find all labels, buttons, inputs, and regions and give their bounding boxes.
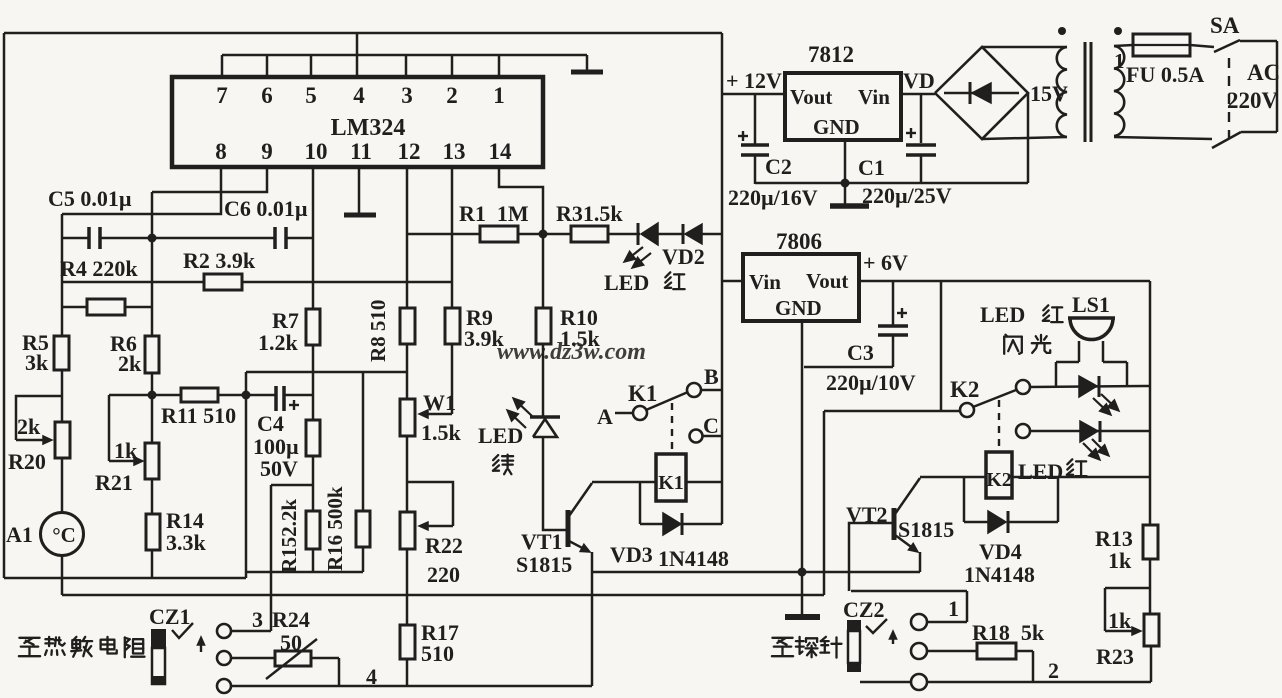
- wire R15 bottom: [312, 549, 315, 572]
- wire R15a-R15: [312, 456, 315, 511]
- transistor VT2 emitter: [895, 535, 918, 552]
- label C3 value: [826, 370, 916, 395]
- svg-text:R16 500k: R16 500k: [323, 486, 347, 571]
- svg-text:2: 2: [446, 83, 458, 108]
- switch blade K1: [646, 392, 688, 410]
- wire rail-7806: [722, 280, 743, 283]
- svg-text:9: 9: [261, 139, 273, 164]
- svg-text:7812: 7812: [808, 42, 854, 67]
- svg-text:R4 220k: R4 220k: [60, 256, 138, 281]
- wire +6V right drop: [1149, 281, 1152, 525]
- contact K2 upper: [1016, 380, 1030, 394]
- label A: [597, 404, 613, 429]
- wire primary top: [1114, 45, 1133, 46]
- resistor R14: [146, 514, 160, 550]
- resistor R5: [54, 336, 69, 370]
- svg-text:C4: C4: [257, 411, 284, 436]
- led red VD1: [638, 223, 658, 245]
- mark CZ2 check: [866, 619, 887, 633]
- svg-text:R8 510: R8 510: [366, 300, 390, 362]
- led LED1: [1079, 376, 1099, 397]
- wire 7806 GND down: [801, 321, 804, 616]
- arrow W1 wiper: [419, 410, 452, 418]
- wire B-rail: [701, 389, 722, 392]
- resistor R8: [400, 308, 415, 344]
- wire 7812 GND pin: [844, 140, 847, 183]
- capacitor C6: [152, 227, 313, 249]
- capacitor C1: [906, 94, 936, 183]
- arrow CZ1 plug: [197, 637, 204, 652]
- relay coil K1: [656, 454, 686, 501]
- wire R16 bottom: [362, 547, 365, 572]
- label C5: [48, 186, 132, 211]
- svg-text:220V: 220V: [1227, 88, 1279, 113]
- wire pin9 hook: [152, 167, 267, 192]
- svg-text:3.3k: 3.3k: [166, 530, 207, 555]
- label +6V: [863, 250, 908, 275]
- wire +6V: [859, 280, 1150, 283]
- pin numbers top row: [216, 83, 505, 108]
- svg-text:3: 3: [401, 83, 413, 108]
- transistor VT1 base bar: [566, 510, 571, 547]
- label R6: [110, 331, 142, 376]
- ground main: [785, 614, 820, 620]
- label R17: [421, 620, 459, 666]
- label R21: [95, 470, 133, 495]
- svg-text:K2: K2: [986, 469, 1012, 491]
- diode VD4: [964, 511, 1058, 533]
- wire 372 row: [246, 371, 407, 374]
- svg-text:Vout: Vout: [790, 85, 832, 109]
- label R10: [560, 305, 601, 351]
- svg-text:K2: K2: [950, 377, 979, 402]
- label R20: [8, 449, 46, 474]
- wire R22 bracket: [407, 482, 453, 526]
- potentiometer R22: [400, 512, 415, 549]
- svg-text:510: 510: [421, 641, 454, 666]
- wire vertical x62: [61, 214, 64, 336]
- capacitor C2: [741, 94, 769, 184]
- wire W1-R22: [406, 436, 409, 512]
- label CZ1: [149, 604, 191, 629]
- svg-text:+ 6V: + 6V: [863, 250, 908, 275]
- svg-text:LS1: LS1: [1072, 292, 1110, 317]
- label +12V: [726, 68, 782, 93]
- wire pin13: [451, 167, 454, 308]
- svg-text:220µ/25V: 220µ/25V: [862, 183, 952, 208]
- svg-text:50V: 50V: [260, 456, 298, 481]
- wire K2-rail: [1012, 476, 1150, 479]
- label LED red 2: [1018, 459, 1087, 484]
- wire line1: [4, 577, 246, 580]
- svg-text:1N4148: 1N4148: [964, 562, 1035, 587]
- wire line2: [62, 594, 824, 597]
- contact CZ2-3: [911, 674, 927, 690]
- resistor R2: [204, 274, 242, 290]
- dashed link SA: [1228, 58, 1230, 138]
- label R7: [258, 308, 299, 355]
- wire left border: [3, 33, 6, 578]
- svg-text:7806: 7806: [776, 229, 822, 254]
- wire VT1 emitter down: [591, 552, 594, 686]
- wire bridge bottom: [982, 137, 1067, 139]
- node gnd junction: [798, 568, 807, 577]
- resistor R7: [306, 309, 320, 345]
- label VD3: [610, 542, 729, 571]
- wire x824 vertical: [823, 411, 826, 595]
- node phasing dot left: [1058, 27, 1066, 35]
- resistor R10: [536, 308, 551, 344]
- svg-text:8: 8: [215, 139, 227, 164]
- svg-text:R18 5k: R18 5k: [972, 620, 1045, 645]
- label R1: [459, 201, 529, 226]
- wire R10-LED: [542, 344, 545, 416]
- potentiometer R20: [55, 422, 70, 458]
- arrow CZ2 plug: [889, 631, 896, 644]
- label SA: [1210, 13, 1240, 38]
- svg-text:R31.5k: R31.5k: [556, 201, 623, 226]
- arrows LED2: [1083, 439, 1109, 460]
- contact CZ1-3: [217, 679, 231, 693]
- contact CZ1-2: [217, 651, 231, 665]
- regulator 7806: [743, 254, 859, 321]
- arrow R23 wiper: [1105, 627, 1141, 635]
- label VT1: [516, 529, 572, 577]
- label R23 value: [1108, 608, 1132, 633]
- wire VT2 base hook: [849, 523, 892, 591]
- wire R20-A1: [61, 458, 64, 513]
- svg-text:12: 12: [398, 139, 421, 164]
- wire pin10 column: [312, 167, 315, 309]
- wire R5-R20: [61, 370, 64, 422]
- wire R1 row left: [407, 233, 480, 236]
- svg-text:Vin: Vin: [858, 85, 890, 109]
- connector CZ1 jack: [151, 629, 166, 685]
- svg-text:4: 4: [366, 664, 377, 689]
- svg-text:CZ1: CZ1: [149, 604, 191, 629]
- svg-text:C6 0.01µ: C6 0.01µ: [224, 196, 308, 221]
- svg-text:www.dz3w.com: www.dz3w.com: [497, 339, 646, 365]
- svg-text:C: C: [703, 413, 719, 438]
- label to probe: [772, 637, 842, 658]
- wire SA-ACtop: [1240, 40, 1277, 43]
- potentiometer W1: [400, 399, 415, 436]
- wire A stub: [615, 412, 633, 415]
- contact B: [687, 383, 701, 397]
- meter A1: [41, 513, 84, 556]
- label C2 plus: [738, 131, 748, 141]
- svg-text:A: A: [597, 404, 613, 429]
- svg-text:C5 0.01µ: C5 0.01µ: [48, 186, 132, 211]
- ground pin11: [344, 167, 376, 215]
- wire R6 bottom: [151, 373, 154, 395]
- label K2 contacts: [950, 377, 979, 402]
- resistor R17: [400, 625, 415, 659]
- mark CZ1 check: [172, 623, 193, 638]
- svg-text:LED: LED: [478, 423, 523, 448]
- potentiometer R23: [1144, 614, 1159, 646]
- wire VD4 right drop: [1057, 477, 1060, 522]
- svg-text:C2: C2: [765, 154, 792, 179]
- wire R2 row: [62, 281, 452, 284]
- label C4: [253, 411, 299, 481]
- svg-text:6: 6: [261, 83, 273, 108]
- wire led2 row: [1030, 430, 1150, 433]
- led LED2: [1080, 421, 1100, 442]
- label LED green: [478, 423, 523, 474]
- contact CZ2-1: [911, 614, 927, 630]
- wire Vin-bridge: [901, 93, 935, 96]
- node C5-C6 junction: [148, 234, 157, 243]
- svg-text:S1815: S1815: [898, 517, 954, 542]
- wire A1 bottom: [61, 555, 64, 595]
- label flash: [1004, 335, 1050, 354]
- svg-text:+ 12V: + 12V: [726, 68, 782, 93]
- label 4: [366, 664, 377, 689]
- svg-text:1k: 1k: [1108, 548, 1132, 573]
- label C3 plus: [897, 308, 907, 318]
- label C6: [224, 196, 308, 221]
- label R15: [277, 499, 301, 573]
- svg-text:Vin: Vin: [749, 270, 781, 294]
- bridge rectifier: [935, 47, 1028, 139]
- wire pin8 hook: [62, 167, 221, 214]
- bridge diode: [944, 82, 1019, 104]
- wire R16 top: [362, 372, 365, 511]
- label R4: [60, 256, 138, 281]
- svg-text:R2 3.9k: R2 3.9k: [183, 248, 256, 273]
- svg-text:3k: 3k: [25, 350, 49, 375]
- svg-text:B: B: [704, 364, 719, 389]
- capacitor C5: [62, 227, 152, 249]
- arrows red LED: [624, 247, 651, 268]
- resistor R15: [306, 511, 320, 549]
- switch blade K2: [973, 390, 1016, 407]
- label C4 plus: [289, 400, 299, 410]
- wire R23 bracket: [1105, 588, 1150, 631]
- svg-text:1k: 1k: [114, 438, 138, 463]
- label C2: [765, 154, 792, 179]
- wire R11 row: [109, 394, 246, 397]
- wire CZ1-1 to R15: [271, 484, 313, 487]
- node R11-C4 junction: [242, 391, 251, 400]
- wire led1 row: [1030, 386, 1150, 387]
- wire junction-R21: [151, 395, 154, 443]
- label LS1: [1072, 292, 1110, 317]
- wire R21-R14: [151, 479, 154, 514]
- label 7806: [776, 229, 822, 254]
- wire ground row: [592, 571, 920, 574]
- wire +6V drop: [940, 281, 943, 411]
- wire R18 right: [1016, 651, 1033, 682]
- label VT2: [846, 502, 954, 542]
- svg-text:R11 510: R11 510: [161, 403, 236, 428]
- svg-text:2k: 2k: [118, 351, 142, 376]
- svg-text:CZ2: CZ2: [843, 597, 885, 622]
- transformer T1 primary coil: [1114, 46, 1124, 136]
- arrows green LED: [507, 398, 532, 428]
- svg-text:220µ/16V: 220µ/16V: [728, 185, 818, 210]
- wire top pin stubs: [222, 55, 499, 77]
- label R16: [323, 486, 347, 571]
- fuse FU: [1133, 34, 1190, 56]
- wire top border: [4, 32, 722, 35]
- contact CZ1-1: [217, 624, 231, 638]
- arrow R20 wiper: [16, 436, 52, 444]
- wire gnd rail: [755, 182, 1028, 185]
- svg-text:R22: R22: [425, 533, 463, 558]
- wire R13-R23: [1149, 559, 1152, 614]
- label C3: [847, 340, 874, 365]
- label LED red flash: [980, 302, 1063, 327]
- resistor R18: [977, 643, 1016, 659]
- wire LED-VD2: [658, 233, 684, 236]
- resistor R16: [356, 511, 370, 547]
- wire R20 wiper bracket: [16, 396, 62, 440]
- svg-text:1: 1: [493, 83, 505, 108]
- label R14: [166, 508, 207, 555]
- svg-text:R1 1M: R1 1M: [459, 201, 529, 226]
- label R3: [556, 201, 623, 226]
- label R23: [1096, 644, 1134, 669]
- label A1: [6, 522, 33, 547]
- wire top pin bus: [222, 54, 587, 57]
- label R5: [22, 330, 49, 375]
- transistor VT2 collector: [895, 478, 920, 514]
- svg-text:K1: K1: [628, 381, 657, 406]
- wire pin4 to top border: [356, 33, 359, 77]
- label 2: [1048, 658, 1059, 683]
- label CZ2: [843, 597, 885, 622]
- svg-text:10: 10: [305, 139, 328, 164]
- contact A: [633, 406, 647, 420]
- resistor R4: [87, 299, 125, 315]
- contact K2 common: [960, 403, 974, 417]
- label terminal 1: [1114, 49, 1125, 73]
- svg-text:K1: K1: [658, 472, 684, 494]
- svg-text:LED: LED: [980, 302, 1025, 327]
- wire primary bottom: [1114, 137, 1212, 139]
- wire R17 bottom: [406, 659, 409, 686]
- lamp LS1: [1056, 318, 1127, 386]
- svg-text:A1: A1: [6, 522, 33, 547]
- svg-text:VT2: VT2: [846, 502, 888, 527]
- svg-text:°C: °C: [52, 523, 76, 547]
- label C1: [858, 155, 885, 180]
- watermark: [497, 339, 646, 365]
- op-amp U1 LM324 body: [172, 77, 543, 167]
- label 3: [252, 607, 263, 632]
- resistor R6: [145, 336, 159, 373]
- wire R21 wiper bracket: [108, 395, 111, 461]
- label to thermistor: [19, 637, 145, 657]
- wire CZ1-1: [231, 485, 271, 631]
- node R6-R11 junction: [148, 391, 157, 400]
- arrow R22 wiper: [419, 522, 453, 530]
- svg-text:GND: GND: [813, 115, 860, 139]
- wire C-rail: [703, 435, 722, 438]
- svg-text:LED: LED: [1018, 459, 1063, 484]
- wire +12V: [722, 93, 785, 96]
- arrows LED1: [1093, 394, 1119, 415]
- svg-text:R24: R24: [272, 607, 310, 632]
- label R21 value: [114, 438, 138, 463]
- wire R9 bottom: [451, 344, 454, 414]
- diode VD2: [683, 224, 702, 244]
- label C: [703, 413, 719, 438]
- thermistor R24: [266, 639, 317, 679]
- wire LED-VT1base: [543, 437, 566, 530]
- label W1: [421, 390, 462, 445]
- svg-text:1.2k: 1.2k: [258, 330, 299, 355]
- svg-text:1.5k: 1.5k: [421, 420, 462, 445]
- label C1 plus: [906, 128, 916, 138]
- svg-text:3: 3: [252, 607, 263, 632]
- label 7812: [808, 42, 854, 67]
- label VD4: [964, 539, 1035, 587]
- pin numbers bottom row: [215, 139, 512, 164]
- resistor R11: [181, 388, 218, 402]
- wire R1-R3: [518, 233, 571, 236]
- wire K1-rail: [686, 481, 722, 484]
- wire K2 common row: [824, 410, 960, 413]
- node R1 R3 junction: [539, 230, 548, 239]
- wire R24 right: [311, 658, 339, 686]
- label R11: [161, 403, 236, 428]
- wire CZ1-2: [231, 657, 275, 660]
- arrow R21 wiper: [109, 457, 143, 465]
- resistor R9: [445, 308, 460, 344]
- resistor R1: [480, 226, 518, 242]
- svg-text:LED: LED: [604, 270, 649, 295]
- potentiometer R21: [145, 443, 159, 479]
- diode VD3: [640, 513, 722, 535]
- wire bottom row: [231, 685, 592, 688]
- svg-text:7: 7: [216, 83, 228, 108]
- label R13: [1095, 526, 1133, 573]
- wire x246 vertical: [245, 372, 248, 578]
- node phasing dot right: [1114, 27, 1122, 35]
- label 220V: [1227, 88, 1279, 113]
- wire R23 bottom: [1150, 646, 1153, 682]
- transformer core: [1085, 42, 1091, 142]
- svg-text:11: 11: [350, 139, 372, 164]
- label R22: [425, 533, 463, 587]
- switch SA upper blade: [1214, 40, 1240, 52]
- svg-text:2k: 2k: [17, 414, 41, 439]
- wire VT1c-K1: [592, 481, 656, 484]
- wire pin14 hook: [499, 167, 543, 234]
- label R9: [464, 305, 505, 351]
- svg-text:1k: 1k: [1108, 608, 1132, 633]
- label LED red: [604, 270, 685, 295]
- wire R15 R16 bottoms: [246, 571, 363, 574]
- capacitor C3: [878, 281, 908, 367]
- wire SA-ACbottom: [1241, 131, 1277, 134]
- label R8: [366, 300, 390, 362]
- label 15V: [1030, 81, 1068, 106]
- resistor R3: [571, 226, 608, 242]
- wire CZ2-2: [927, 650, 977, 653]
- wire R22-line2: [406, 549, 409, 595]
- svg-text:2: 2: [1048, 658, 1059, 683]
- svg-text:C3: C3: [847, 340, 874, 365]
- label 1: [948, 596, 959, 621]
- svg-text:VD2: VD2: [662, 244, 705, 269]
- svg-text:1: 1: [948, 596, 959, 621]
- ground top right: [571, 55, 603, 72]
- wire R3-LED: [608, 233, 640, 236]
